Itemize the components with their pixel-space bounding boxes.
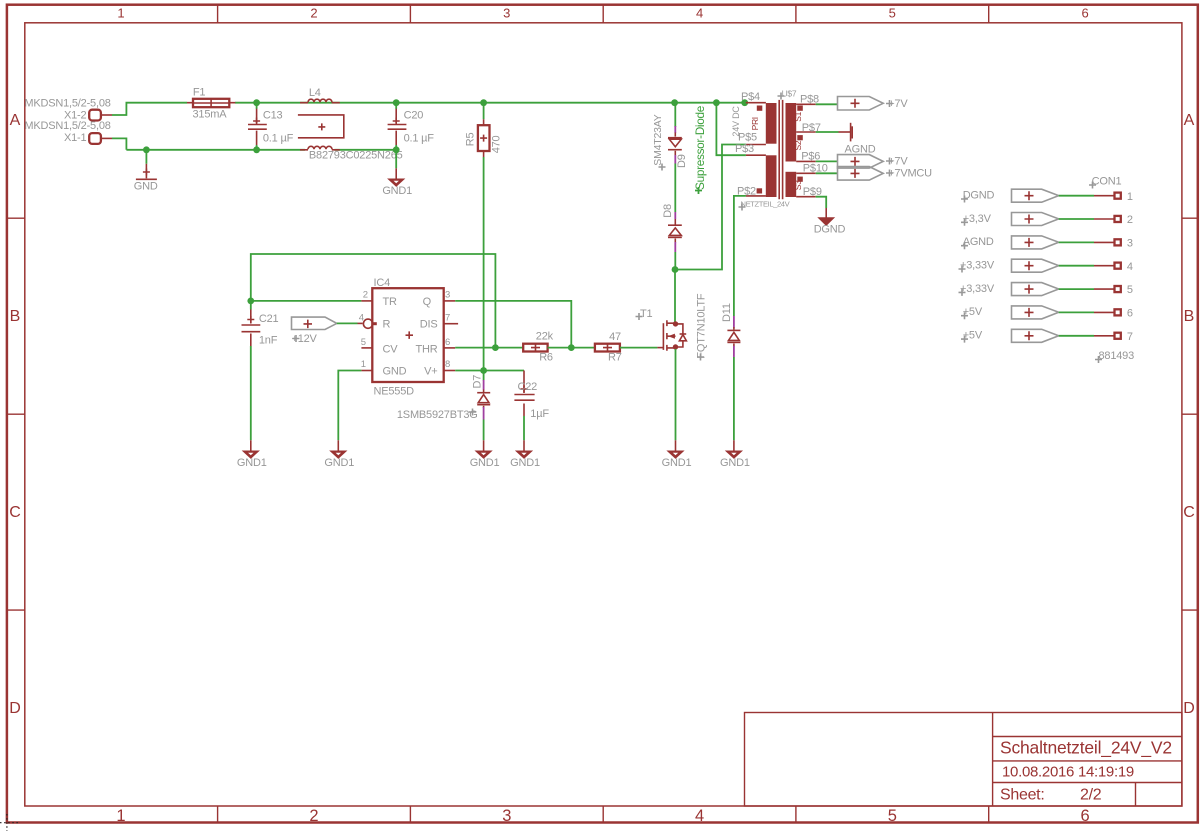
svg-text:881493: 881493 [1099,350,1135,362]
diode D8 [668,212,682,270]
wire X1-2 to F1 [112,103,187,115]
supply flag +7V top [838,97,884,111]
cross DGND pin1 [961,196,968,203]
svg-text:24V DC: 24V DC [731,106,741,137]
svg-text:3: 3 [503,6,510,21]
svg-text:AGND: AGND [845,143,876,155]
inductor bottom coil [300,146,340,150]
svg-text:1µF: 1µF [530,408,549,420]
cross pin4 [959,266,966,273]
svg-text:IC4: IC4 [374,277,391,289]
svg-text:1: 1 [116,807,125,825]
svg-text:1: 1 [1127,191,1133,203]
wire P$2 to D11 [734,196,746,316]
cross 1SMB5927 [469,409,476,416]
svg-text:B: B [1184,308,1195,325]
supply flag pin3 [1011,236,1114,249]
svg-text:B: B [10,308,21,325]
svg-text:3: 3 [1127,238,1133,250]
column ticks bottom [218,806,989,823]
wire GND pin to GND1 [338,371,361,441]
svg-text:D: D [9,700,21,717]
junction D9 top [671,99,678,106]
ground GND1 under C22 [517,440,531,458]
svg-text:C20: C20 [404,110,424,122]
svg-text:GND1: GND1 [324,457,354,469]
connector X1-2 pad [89,110,112,121]
capacitor C13 [248,103,267,150]
supply flag pin6 [1011,306,1114,319]
cross pin3 [961,242,968,249]
svg-text:MKDSN1,5/2-5,08: MKDSN1,5/2-5,08 [24,120,110,132]
svg-text:U$7: U$7 [782,89,797,99]
svg-text:6: 6 [445,337,450,348]
junction C20 bottom [393,146,400,153]
cross pin7 [961,336,968,343]
svg-text:D7: D7 [472,375,484,389]
svg-text:2: 2 [1127,214,1133,226]
svg-text:L4: L4 [309,87,321,99]
svg-text:2: 2 [310,6,317,21]
pin square CON1-2 [1115,216,1121,222]
svg-text:GND1: GND1 [382,185,412,197]
svg-text:V+: V+ [424,366,437,378]
wire F1 to rail right [235,102,746,104]
ground GND [136,150,157,180]
svg-text:P$2: P$2 [737,186,756,198]
svg-text:4: 4 [695,807,704,825]
svg-text:0.1 µF: 0.1 µF [404,132,435,144]
svg-text:MKDSN1,5/2-5,08: MKDSN1,5/2-5,08 [24,97,110,109]
wire P$6 to +7V flag [816,160,838,162]
ground GND1 under IC [331,440,345,458]
svg-text:Q: Q [423,296,432,308]
svg-text:GND1: GND1 [470,457,500,469]
pin 5 CV [361,337,399,355]
wire drain [674,270,676,323]
svg-text:4: 4 [1127,261,1133,273]
junction V+ D7 [480,367,487,374]
ground GND1 under C21 [244,440,258,458]
svg-text:C21: C21 [259,313,279,325]
cross Supressor-Diode [695,187,702,194]
pin square CON1-3 [1115,239,1121,245]
fuse F1 [187,99,235,107]
supply flag pin4 [1011,259,1114,272]
cross +7V mid [886,158,893,165]
svg-text:GND1: GND1 [237,457,267,469]
svg-text:10.08.2016 14:19:19: 10.08.2016 14:19:19 [1002,764,1134,781]
wire P$7 to AGND [816,131,839,133]
svg-text:PRI: PRI [750,117,760,130]
pin square CON1-1 [1115,193,1121,199]
pin square CON1-7 [1115,333,1121,339]
cross SM4T23AY [659,164,666,171]
svg-text:R7: R7 [608,352,622,364]
svg-text:1: 1 [117,6,124,21]
cross CON1 [1089,182,1096,189]
svg-text:R6: R6 [539,351,553,363]
svg-text:315mA: 315mA [193,108,228,120]
svg-text:5: 5 [889,6,896,21]
wire Q output [455,301,571,348]
supply flag +7VMCU [838,167,884,181]
wire V+ to C22 [455,370,524,372]
svg-text:+7VMCU: +7VMCU [888,167,932,179]
cross NETZTEIL [739,204,746,211]
pin 2 TR [361,290,397,308]
svg-text:CV: CV [383,343,399,355]
IC4 origin cross [406,331,414,339]
supply flag pin2 [1011,213,1114,226]
diode D9 TVS [668,103,682,212]
svg-text:C22: C22 [518,381,538,393]
svg-text:2: 2 [363,290,368,301]
transformer U$7 [746,100,816,199]
svg-text:CON1: CON1 [1092,176,1122,188]
svg-text:GND1: GND1 [662,457,692,469]
wire C20 to GND1 [395,150,397,169]
junction R5 top [480,99,487,106]
wire P$3 to rail [716,103,746,156]
svg-text:B82793C0225N265: B82793C0225N265 [309,150,403,162]
svg-text:8: 8 [445,359,450,370]
svg-text:1nF: 1nF [259,335,278,347]
wire P$10 to +7VMCU flag [816,172,838,174]
svg-text:R: R [383,319,391,331]
pin square CON1-4 [1115,263,1121,269]
svg-text:470: 470 [491,135,503,153]
svg-text:R5: R5 [465,133,477,147]
diode D7 [477,371,490,441]
junction drain node [672,266,679,273]
junction R6 right [568,344,575,351]
ground GND1 under D7 [476,440,490,458]
cross +7V top [886,100,893,107]
svg-text:5: 5 [888,807,897,825]
capacitor C21 [242,301,261,440]
ground GND1 under T1 [668,440,682,458]
capacitor C20 [388,103,407,150]
svg-text:D: D [1183,700,1195,717]
svg-text:5: 5 [361,337,366,348]
cross U$7 [778,93,785,100]
svg-text:Schaltnetzteil_24V_V2: Schaltnetzteil_24V_V2 [1000,738,1172,759]
svg-text:DIS: DIS [420,319,438,331]
svg-text:7: 7 [445,312,450,323]
connector X1-1 pad [89,133,112,144]
svg-text:P$4: P$4 [741,91,760,103]
wire THR [455,347,523,349]
pin square CON1-5 [1115,286,1121,292]
svg-text:TR: TR [383,296,398,308]
svg-text:NE555D: NE555D [374,385,415,397]
svg-text:D9: D9 [676,154,688,168]
ground GND1 under D11 [727,440,741,458]
row ticks left [7,218,25,610]
svg-text:SM4T23AY: SM4T23AY [652,114,664,166]
svg-text:7: 7 [1127,331,1133,343]
cross +12V [293,335,300,342]
transistor T1 FQT7N10LTF [663,320,686,351]
svg-text:3: 3 [445,290,450,301]
svg-text:D11: D11 [721,303,733,322]
pin 8 V+ [424,359,455,377]
junction P$3 rail [713,99,720,106]
svg-text:D8: D8 [662,204,674,218]
junction C20 top [393,99,400,106]
supply flag +7V mid [838,155,884,169]
svg-text:6: 6 [1127,308,1133,320]
junction P$4 [741,99,748,106]
svg-text:A: A [1184,112,1195,129]
row ticks right [1182,218,1198,610]
title block row lines [993,737,1182,807]
svg-text:GND1: GND1 [510,457,540,469]
svg-text:P$3: P$3 [735,143,754,155]
svg-text:6: 6 [1081,6,1088,21]
svg-text:GND: GND [134,180,158,192]
svg-text:Sheet:: Sheet: [1000,787,1044,804]
svg-text:2/2: 2/2 [1080,787,1102,804]
svg-text:A: A [10,112,21,129]
svg-text:22k: 22k [536,330,554,342]
supply flag +12V [292,317,363,329]
column ticks top [218,5,989,23]
inductor L4 top coil [300,99,340,103]
junction C21 top [247,298,254,305]
supply flag pin1 [1011,189,1114,202]
corner registration mark [0,814,18,831]
cross 881493 [1095,356,1102,363]
svg-text:C: C [1183,504,1195,521]
wire P$9 to DGND [816,197,827,208]
junction THR feedback [492,344,499,351]
svg-text:C13: C13 [263,110,283,122]
pin 6 THR [415,337,455,355]
svg-text:S1: S1 [793,111,803,121]
svg-text:4: 4 [696,6,703,21]
resistor R5 [478,103,490,371]
wire drain node to P$5 [675,145,746,270]
svg-text:C: C [9,504,21,521]
svg-text:GND: GND [383,366,407,378]
pin 4 R with bubble [359,312,391,330]
svg-text:GND1: GND1 [720,457,750,469]
cross pin6 [961,312,968,319]
capacitor C22 [514,371,534,441]
svg-text:47: 47 [609,331,621,343]
pin square CON1-6 [1115,309,1121,315]
pin 3 Q [423,290,456,308]
supply flag pin5 [1011,283,1114,296]
wire TR feedback top [251,254,496,348]
svg-text:X1-1: X1-1 [64,132,87,144]
resistor R7 [595,343,664,352]
svg-text:2: 2 [309,807,318,825]
resistor R6 [523,343,571,352]
junction C13 bottom [253,146,260,153]
supply flag pin7 [1011,329,1114,342]
wire bottom rail [126,149,396,151]
choke B82793 body [298,115,344,138]
wire X1-1 to bottom rail [112,138,126,149]
ground DGND [820,208,833,225]
wire source to GND1 [675,349,677,440]
svg-text:DGND: DGND [814,224,846,236]
svg-text:Supressor-Diode: Supressor-Diode [693,105,707,190]
title block divider vertical [992,713,994,807]
cross pin5 [959,289,966,296]
svg-text:NETZTEIL_24V: NETZTEIL_24V [741,200,791,209]
svg-text:T1: T1 [640,308,653,320]
junction GND branch [143,146,150,153]
ground AGND [839,123,853,142]
cross T1 [636,313,643,320]
svg-text:1SMB5927BT3G: 1SMB5927BT3G [397,409,478,421]
svg-text:6: 6 [1081,807,1090,825]
svg-text:S3: S3 [793,180,803,190]
svg-text:P$5: P$5 [738,132,757,144]
svg-text:FQT7N10LTF: FQT7N10LTF [696,293,708,359]
title block box [745,713,1182,807]
wire R6 to R7 [571,347,595,349]
svg-text:4: 4 [359,312,364,323]
svg-text:3: 3 [502,807,511,825]
svg-text:S2: S2 [793,140,803,150]
junction C13 top [253,99,260,106]
svg-text:5: 5 [1127,284,1133,296]
wire P$8 to +7V flag [816,103,838,105]
cross FQT7N10LTF [697,354,704,361]
op-amp IC4 NE555 box [372,288,443,382]
ground GND1 under C20 [389,168,403,186]
cross pin2 [961,219,968,226]
svg-text:0.1 µF: 0.1 µF [263,132,294,144]
svg-text:1: 1 [361,359,366,370]
svg-text:THR: THR [415,343,437,355]
pin 1 GND [361,359,407,377]
cross +7VMCU [886,170,893,177]
svg-text:F1: F1 [193,86,206,98]
pin 7 DIS [420,312,458,330]
diode D11 [727,316,740,440]
